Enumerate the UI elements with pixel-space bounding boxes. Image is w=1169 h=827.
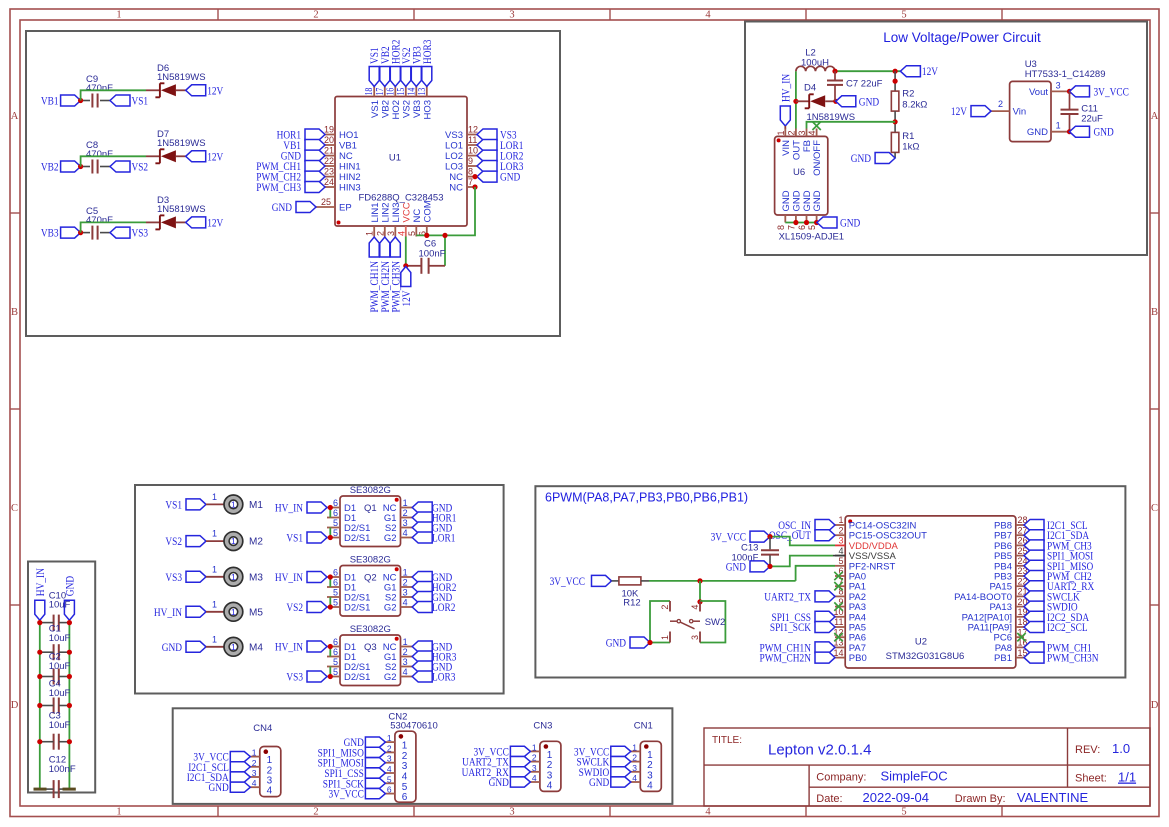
svg-text:3: 3 xyxy=(509,10,514,21)
svg-text:14: 14 xyxy=(406,88,417,96)
junction U1 pin7 xyxy=(472,184,477,189)
wire Q1 D2/S1 tie (green) xyxy=(328,528,333,541)
svg-text:8: 8 xyxy=(776,225,786,230)
svg-text:LIN3: LIN3 xyxy=(391,202,402,222)
svg-text:SW2: SW2 xyxy=(705,617,726,628)
wire GND to M4 pin 1 xyxy=(206,634,224,647)
svg-text:4: 4 xyxy=(387,764,392,774)
wire R12 to NRST (green) xyxy=(641,566,835,584)
svg-text:6: 6 xyxy=(333,498,338,508)
inductor L2 100uH xyxy=(796,48,835,72)
resistor R1 1k xyxy=(891,131,919,153)
svg-text:SE3082G: SE3082G xyxy=(350,554,391,565)
svg-text:HV_IN: HV_IN xyxy=(33,568,47,596)
svg-text:1: 1 xyxy=(532,742,537,752)
svg-text:6: 6 xyxy=(333,568,338,578)
svg-text:10uF: 10uF xyxy=(49,661,71,672)
svg-text:LIN2: LIN2 xyxy=(380,202,391,222)
net flag GND (SW2) xyxy=(606,636,650,650)
svg-text:1: 1 xyxy=(838,515,843,525)
svg-text:R12: R12 xyxy=(623,598,640,609)
transistor Q2 SE3082G xyxy=(327,554,412,616)
net flag I2C1_SDA (CN4) xyxy=(187,770,251,784)
svg-text:6: 6 xyxy=(333,508,338,518)
svg-text:VS3: VS3 xyxy=(165,570,182,584)
svg-text:STM32G031G8U6: STM32G031G8U6 xyxy=(886,651,965,662)
svg-text:PB1: PB1 xyxy=(994,653,1012,664)
svg-text:2022-09-04: 2022-09-04 xyxy=(863,790,930,805)
svg-text:HIN1: HIN1 xyxy=(339,162,361,173)
net flag VS3 (U1 right) xyxy=(477,128,517,142)
svg-text:5: 5 xyxy=(333,598,338,608)
svg-text:Q1: Q1 xyxy=(364,503,377,514)
net flag SPI1_MOSI (CN2) xyxy=(318,756,386,770)
svg-text:1: 1 xyxy=(387,733,392,743)
capacitor C6 100nF xyxy=(419,239,446,274)
net flag 3V_VCC (CN1) xyxy=(574,744,631,758)
svg-text:GND: GND xyxy=(840,216,861,230)
svg-text:5: 5 xyxy=(333,518,338,528)
svg-text:D: D xyxy=(1151,700,1159,711)
svg-text:3V_VCC: 3V_VCC xyxy=(711,530,746,544)
svg-text:D4: D4 xyxy=(804,82,816,93)
net flag GND (M4) xyxy=(162,640,206,654)
net flag VB2 xyxy=(41,160,81,174)
svg-text:12V: 12V xyxy=(207,215,223,229)
net flag VS1 (U1 top) xyxy=(367,47,381,86)
svg-text:VB3: VB3 xyxy=(41,226,59,240)
svg-text:HOR3: HOR3 xyxy=(420,40,434,64)
net flag SPI1_SCK (CN2) xyxy=(323,776,386,790)
svg-text:3: 3 xyxy=(532,763,537,773)
svg-text:1: 1 xyxy=(212,634,217,644)
svg-text:1: 1 xyxy=(231,499,236,509)
resistor R2 8.2k xyxy=(891,89,927,111)
svg-text:SPI1_SCK: SPI1_SCK xyxy=(770,620,811,634)
net flag I2C2_SCL (U2 pin18) xyxy=(1024,620,1088,634)
net flag PWM_CH2N (U1 bottom) xyxy=(378,237,392,313)
resistor R12 10K xyxy=(619,577,641,609)
svg-text:D2/S1: D2/S1 xyxy=(344,533,370,544)
svg-text:470nF: 470nF xyxy=(86,149,113,160)
svg-text:4: 4 xyxy=(690,605,700,610)
net flag SPI1_CSS (CN2) xyxy=(324,766,385,780)
wire R2 to R1 / FB node xyxy=(893,111,898,132)
svg-text:3: 3 xyxy=(252,768,257,778)
section box: low voltage/power circuit xyxy=(745,22,1147,256)
svg-text:3: 3 xyxy=(632,763,637,773)
svg-text:GND: GND xyxy=(851,151,872,165)
net flag I2C2_SDA (U2 pin19) xyxy=(1024,610,1089,624)
svg-text:3: 3 xyxy=(403,588,408,598)
svg-text:100nF: 100nF xyxy=(419,248,446,259)
svg-text:2: 2 xyxy=(403,647,408,657)
capacitor C7 22uF xyxy=(827,71,883,101)
svg-text:CN3: CN3 xyxy=(533,721,552,732)
svg-text:21: 21 xyxy=(324,146,334,156)
section box: connectors xyxy=(173,708,673,804)
svg-text:VS2: VS2 xyxy=(401,100,412,118)
net flag GND xyxy=(62,576,76,621)
svg-text:VCC: VCC xyxy=(401,202,412,222)
svg-text:LIN1: LIN1 xyxy=(370,202,381,222)
svg-text:VS2: VS2 xyxy=(132,160,149,174)
svg-text:4: 4 xyxy=(396,231,406,236)
net flag GND (C7/D4) xyxy=(836,94,880,108)
net flag GND (U2 VSS) xyxy=(726,559,770,573)
capacitor C11 22uF xyxy=(1061,91,1104,131)
svg-text:4: 4 xyxy=(252,778,257,788)
svg-text:6: 6 xyxy=(402,792,408,803)
svg-text:Date:: Date: xyxy=(816,793,842,805)
svg-text:2: 2 xyxy=(786,130,796,135)
svg-text:U6: U6 xyxy=(793,167,805,178)
svg-text:REV:: REV: xyxy=(1075,744,1100,756)
svg-text:1: 1 xyxy=(231,607,236,617)
svg-text:10: 10 xyxy=(468,146,478,156)
svg-text:1.0: 1.0 xyxy=(1112,741,1130,756)
svg-text:10uF: 10uF xyxy=(49,688,71,699)
pad M2 motor terminal xyxy=(224,532,263,551)
svg-text:G2: G2 xyxy=(384,603,397,614)
pad M4 motor terminal xyxy=(224,637,263,656)
wire D4 cathode to switch node xyxy=(796,100,809,102)
junction U3 Vout xyxy=(1067,89,1072,94)
net flag VS1 xyxy=(110,94,148,108)
net flag PWM_CH2 (U2 pin23) xyxy=(1024,569,1092,583)
capacitor C2 10uF xyxy=(37,652,72,685)
IC U2 STM32G031G8U6 MCU xyxy=(833,515,1027,668)
wire 12V to R2 xyxy=(893,71,898,91)
diode D7 1N5819WS xyxy=(155,129,205,163)
svg-text:VS2: VS2 xyxy=(165,534,182,548)
no-connect X on U2 pin 7 xyxy=(834,582,842,590)
svg-text:HIN3: HIN3 xyxy=(339,183,361,194)
svg-text:10uF: 10uF xyxy=(49,633,71,644)
net flag SPI1_MISO (U2 pin24) xyxy=(1024,559,1094,573)
wire VB1 node + junction xyxy=(78,98,90,103)
svg-text:22uF: 22uF xyxy=(1081,114,1103,125)
no-connect X on U2 pin 9 xyxy=(834,602,842,610)
svg-text:NC: NC xyxy=(449,172,463,183)
diode D3 1N5819WS xyxy=(155,195,205,229)
wire U6 OUT to L2 (green) xyxy=(795,71,797,128)
svg-text:3: 3 xyxy=(403,518,408,528)
net flag 3V_VCC (U2 VDD) xyxy=(711,530,770,544)
svg-text:C: C xyxy=(11,503,18,514)
svg-text:3: 3 xyxy=(386,231,396,236)
net flag VB3 xyxy=(41,226,81,240)
svg-text:5: 5 xyxy=(333,528,338,538)
pad M5 motor terminal xyxy=(224,602,263,621)
svg-text:1: 1 xyxy=(252,748,257,758)
svg-text:2: 2 xyxy=(632,753,637,763)
svg-text:D: D xyxy=(11,700,19,711)
wire VS1 to M1 pin 1 xyxy=(206,492,224,505)
svg-text:4: 4 xyxy=(807,130,817,135)
svg-text:M3: M3 xyxy=(249,572,263,583)
wire bootstrap VB1 to D6 xyxy=(81,90,160,100)
capacitor C8 470nF xyxy=(86,140,113,174)
svg-text:6: 6 xyxy=(333,647,338,657)
svg-text:2: 2 xyxy=(313,807,318,818)
net flag VB1 (U1 left) xyxy=(283,138,325,152)
net flag I2C1_SDA (U2 pin27) xyxy=(1024,528,1089,542)
net flag GND (U3) xyxy=(1070,125,1115,139)
svg-text:VS1: VS1 xyxy=(165,497,182,511)
net flag VS2 (U1 top) xyxy=(399,47,413,86)
svg-text:OUT: OUT xyxy=(792,140,803,160)
svg-text:HIN2: HIN2 xyxy=(339,172,361,183)
svg-text:D2/S1: D2/S1 xyxy=(344,603,370,614)
svg-text:R2: R2 xyxy=(902,89,914,100)
svg-text:1: 1 xyxy=(212,529,217,539)
section box: bulk capacitors xyxy=(28,562,95,793)
svg-text:19: 19 xyxy=(324,125,334,135)
wire L2 to 12V (green) xyxy=(832,69,900,74)
svg-text:COM: COM xyxy=(422,200,433,222)
svg-text:1N5819WS: 1N5819WS xyxy=(157,138,206,149)
no-connect X on U2 pin 12 xyxy=(834,633,842,641)
wire 3V_VCC to R12 xyxy=(612,580,620,582)
net flag VB3 (U1 top) xyxy=(409,46,423,86)
svg-text:PWM_CH3: PWM_CH3 xyxy=(256,180,301,194)
net flag VS1 (M1) xyxy=(165,497,206,511)
svg-text:GND: GND xyxy=(812,190,823,211)
wire VB3 node + junction xyxy=(78,230,90,235)
net flag 12V xyxy=(186,83,224,97)
svg-text:VS1: VS1 xyxy=(132,94,149,108)
svg-text:1: 1 xyxy=(632,742,637,752)
svg-text:SE3082G: SE3082G xyxy=(350,624,391,635)
net flag HOR3 (U1 top) xyxy=(420,40,434,87)
connector CN1 xyxy=(631,721,662,792)
svg-text:UART2_TX: UART2_TX xyxy=(764,589,811,603)
IC U1 FD6288Q gate driver xyxy=(316,87,478,237)
svg-text:1: 1 xyxy=(403,568,408,578)
svg-text:Sheet:: Sheet: xyxy=(1075,773,1107,785)
svg-text:GND: GND xyxy=(1027,127,1048,138)
svg-text:Vin: Vin xyxy=(1013,107,1027,118)
capacitor C3 10uF xyxy=(37,711,72,750)
svg-text:4: 4 xyxy=(705,10,711,21)
net flag GND (R1) xyxy=(851,151,895,165)
svg-text:VALENTINE: VALENTINE xyxy=(1017,790,1089,805)
net flag SPI1_MISO (CN2) xyxy=(318,745,386,759)
svg-text:1: 1 xyxy=(365,231,375,236)
svg-text:2: 2 xyxy=(998,99,1003,109)
svg-text:13: 13 xyxy=(417,88,428,96)
svg-text:G2: G2 xyxy=(384,533,397,544)
pad M1 motor terminal xyxy=(224,495,263,514)
svg-text:12V: 12V xyxy=(207,83,223,97)
wire VS2 to M2 pin 1 xyxy=(206,529,224,542)
net flag GND (U1 pins 7-8) xyxy=(477,170,521,184)
svg-text:VS1: VS1 xyxy=(286,531,303,545)
svg-text:12V: 12V xyxy=(399,290,413,306)
svg-text:2: 2 xyxy=(660,605,670,610)
svg-text:XL1509-ADJE1: XL1509-ADJE1 xyxy=(779,232,844,243)
svg-text:LO3: LO3 xyxy=(445,162,463,173)
svg-text:7: 7 xyxy=(786,225,796,230)
net flag GND (CN2) xyxy=(344,735,386,749)
net flag PWM_CH2N (U2 pin14) xyxy=(760,651,836,665)
svg-text:25: 25 xyxy=(321,197,331,207)
net flag LOR3 (Q3) xyxy=(412,670,455,684)
net flag GND (Q1) xyxy=(412,501,452,515)
svg-text:CN4: CN4 xyxy=(253,723,272,734)
svg-text:Vout: Vout xyxy=(1029,87,1048,98)
svg-text:Lepton v2.0.1.4: Lepton v2.0.1.4 xyxy=(768,742,871,759)
svg-text:LO1: LO1 xyxy=(445,141,463,152)
svg-text:2: 2 xyxy=(252,758,257,768)
net flag PWM_CH1 (U1 left) xyxy=(256,159,325,173)
title block xyxy=(704,728,1150,806)
wire Q2 D2/S1 tie (green) xyxy=(328,597,333,610)
junction U3 GND xyxy=(1067,129,1072,134)
svg-text:GND: GND xyxy=(500,170,521,184)
svg-text:4: 4 xyxy=(647,781,653,792)
wire 3V_VCC to VDD (green) xyxy=(767,534,835,545)
svg-text:5: 5 xyxy=(333,588,338,598)
svg-text:U2: U2 xyxy=(915,637,927,648)
net flag GND (Q3) xyxy=(412,660,452,674)
net flag 3V_VCC (CN4) xyxy=(193,750,250,764)
net flag VB2 (U1 top) xyxy=(378,46,392,86)
capacitor C10 10uF xyxy=(37,590,72,630)
svg-text:TITLE:: TITLE: xyxy=(712,735,742,746)
svg-text:SE3082G: SE3082G xyxy=(350,485,391,496)
svg-text:B: B xyxy=(11,307,18,318)
net flag LOR2 (U1 right) xyxy=(477,149,523,163)
no-connect X on U6 ON/OFF xyxy=(812,122,820,130)
net flag HV_IN (Q2) xyxy=(275,570,327,584)
wire D4 anode to GND xyxy=(825,99,838,104)
svg-text:2: 2 xyxy=(532,753,537,763)
svg-text:4: 4 xyxy=(403,667,408,677)
net flag LOR3 (U1 right) xyxy=(477,159,523,173)
svg-text:5: 5 xyxy=(333,657,338,667)
net flag HOR2 (Q2) xyxy=(412,580,456,594)
wire HV_IN to M5 pin 1 xyxy=(206,599,224,612)
svg-text:20: 20 xyxy=(324,135,334,145)
net flag VS2 (Q2) xyxy=(286,600,327,614)
svg-text:6: 6 xyxy=(333,637,338,647)
svg-text:HO1: HO1 xyxy=(339,130,359,141)
wire VB2 node + junction xyxy=(78,164,90,169)
wire HV_IN rail (green) xyxy=(39,620,41,789)
svg-text:M4: M4 xyxy=(249,642,263,653)
svg-text:3: 3 xyxy=(1056,80,1061,90)
svg-text:2: 2 xyxy=(313,10,318,21)
wire Q3 D1 tie (green) xyxy=(328,644,333,657)
svg-text:GND: GND xyxy=(209,780,230,794)
capacitor C13 100nF xyxy=(731,537,779,567)
net flag HV_IN (Q3) xyxy=(275,640,327,654)
diode D6 1N5819WS xyxy=(155,63,205,97)
svg-text:18: 18 xyxy=(364,88,375,96)
net flag GND (Q3) xyxy=(412,640,452,654)
svg-text:3: 3 xyxy=(690,635,700,640)
svg-text:VS3: VS3 xyxy=(286,670,303,684)
svg-text:C7 22uF: C7 22uF xyxy=(846,79,883,90)
net flag LOR2 (Q2) xyxy=(412,600,455,614)
svg-text:3: 3 xyxy=(797,130,807,135)
svg-text:1: 1 xyxy=(1056,120,1061,130)
pad M3 motor terminal xyxy=(224,567,263,586)
svg-text:1/1: 1/1 xyxy=(1118,770,1136,785)
svg-text:3V_VCC: 3V_VCC xyxy=(329,787,364,801)
svg-text:VS2: VS2 xyxy=(286,600,303,614)
svg-text:LO2: LO2 xyxy=(445,151,463,162)
svg-text:23: 23 xyxy=(324,167,334,177)
svg-text:GND: GND xyxy=(272,200,293,214)
net flag 12V (U1 VCC) xyxy=(399,267,413,307)
wire NRST to SW2 pin4 (green) xyxy=(697,581,702,605)
net flag PWM_CH2 (U1 left) xyxy=(256,170,325,184)
net flag UART2_RX (CN3) xyxy=(462,765,531,779)
net flag PWM_CH1N (U2 pin13) xyxy=(760,640,836,654)
svg-text:5: 5 xyxy=(807,225,817,230)
svg-text:HO3: HO3 xyxy=(422,100,433,120)
svg-text:HV_IN: HV_IN xyxy=(275,640,303,654)
section box: MCU 6PWM xyxy=(535,486,1125,677)
svg-text:2: 2 xyxy=(375,231,385,236)
svg-text:NC: NC xyxy=(412,209,423,223)
wire bootstrap VB3 to D3 xyxy=(81,222,160,232)
svg-text:VB2: VB2 xyxy=(41,160,59,174)
transistor Q3 SE3082G xyxy=(327,624,412,686)
net flag I2C1_SCL (CN4) xyxy=(188,760,250,774)
svg-text:PWM_CH3N: PWM_CH3N xyxy=(1047,651,1099,665)
net flag UART2_RX (U2 pin22) xyxy=(1024,579,1095,593)
svg-text:1: 1 xyxy=(776,130,786,135)
net flag HV_IN xyxy=(33,568,47,620)
svg-text:LOR2: LOR2 xyxy=(432,600,455,614)
wire D6 to 12V xyxy=(176,89,186,91)
net flag PWM_CH3 (U2 pin26) xyxy=(1024,538,1092,552)
wire Q2 D1 tie (green) xyxy=(328,574,333,587)
svg-text:4: 4 xyxy=(532,773,537,783)
net flag SWCLK (CN1) xyxy=(577,755,631,769)
net flag VS3 (M3) xyxy=(165,570,206,584)
net flag VS1 (Q1) xyxy=(286,531,327,545)
svg-text:13: 13 xyxy=(833,638,843,648)
net flag GND (U1 EP) xyxy=(272,200,316,214)
connector CN3 xyxy=(530,721,561,792)
svg-text:VS3: VS3 xyxy=(132,226,149,240)
svg-text:1: 1 xyxy=(660,635,670,640)
svg-text:GND: GND xyxy=(781,190,792,211)
svg-text:B: B xyxy=(1151,307,1158,318)
section title 6PWM xyxy=(545,491,748,505)
net flag PWM_CH1 (U2 pin16) xyxy=(1024,640,1092,654)
wire U1 pin7 to COM/C6 (green) xyxy=(416,187,475,266)
svg-text:VIN: VIN xyxy=(781,140,792,156)
net flag HV_IN xyxy=(778,74,792,126)
net flag LOR1 (Q1) xyxy=(412,531,455,545)
svg-text:GND: GND xyxy=(589,775,610,789)
capacitor C4 10uF xyxy=(37,679,72,714)
no-connect X on U2 pin 17 xyxy=(1017,633,1025,641)
net flag HOR1 (U1 left) xyxy=(277,128,325,142)
svg-text:1N5819WS: 1N5819WS xyxy=(157,204,206,215)
net flag 3V_VCC (U3) xyxy=(1070,84,1129,98)
transistor Q1 SE3082G xyxy=(327,485,412,547)
diode D4 1N5819WS xyxy=(804,82,855,123)
net flag I2C1_SCL (U2 pin28) xyxy=(1024,518,1088,532)
net flag UART2_TX (CN3) xyxy=(462,755,530,769)
